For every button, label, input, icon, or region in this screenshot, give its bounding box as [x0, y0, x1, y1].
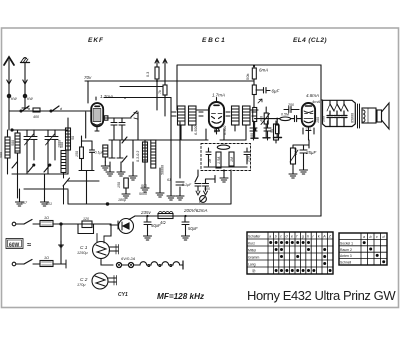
svg-text:1.5A: 1.5A: [217, 156, 221, 164]
svg-text:7k: 7k: [158, 90, 162, 94]
svg-text:500: 500: [141, 184, 147, 188]
svg-text:0.3-0.3: 0.3-0.3: [136, 151, 140, 162]
svg-text:250: 250: [293, 148, 298, 156]
svg-text:b: b: [370, 235, 372, 239]
svg-text:50k: 50k: [245, 74, 250, 80]
svg-text:4Ω: 4Ω: [160, 220, 166, 225]
svg-text:60W: 60W: [9, 243, 20, 249]
svg-text:100: 100: [316, 117, 320, 123]
svg-text:k: k: [318, 235, 320, 239]
svg-text:70v: 70v: [84, 75, 92, 80]
svg-text:a: a: [269, 235, 271, 239]
svg-text:Horny E432 Ultra Prinz GW: Horny E432 Ultra Prinz GW: [247, 288, 396, 303]
svg-text:EKF: EKF: [88, 37, 104, 44]
svg-text:50: 50: [71, 136, 75, 140]
svg-text:Raum 2: Raum 2: [340, 248, 352, 252]
svg-text:1Ω: 1Ω: [44, 216, 49, 220]
svg-text:A: A: [322, 235, 326, 239]
svg-text:6μF: 6μF: [272, 89, 280, 94]
svg-text:CY1: CY1: [118, 292, 128, 298]
svg-text:Lang: Lang: [248, 262, 256, 266]
svg-text:121: 121: [305, 128, 311, 132]
svg-text:007: 007: [21, 201, 28, 205]
svg-text:h: h: [307, 235, 309, 239]
svg-text:400: 400: [260, 116, 264, 122]
svg-text:KW: KW: [11, 97, 17, 101]
svg-text:6V/0.2A: 6V/0.2A: [121, 256, 136, 261]
svg-text:4mA: 4mA: [312, 99, 321, 104]
svg-text:a: a: [363, 235, 365, 239]
svg-text:1000: 1000: [57, 140, 61, 148]
svg-text:a: a: [124, 96, 126, 100]
svg-text:400: 400: [33, 115, 39, 119]
svg-text:Sockel 1: Sockel 1: [340, 241, 353, 245]
svg-text:≈: ≈: [27, 240, 31, 249]
svg-text:0.3: 0.3: [146, 72, 150, 77]
svg-text:e: e: [291, 235, 293, 239]
svg-text:200V/62mA: 200V/62mA: [183, 208, 208, 213]
svg-text:50: 50: [270, 129, 274, 133]
svg-text:a: a: [28, 107, 30, 111]
svg-text:150: 150: [117, 182, 121, 188]
svg-text:25μF: 25μF: [305, 150, 316, 155]
svg-text:5000: 5000: [139, 192, 147, 196]
svg-text:05800: 05800: [351, 113, 355, 123]
svg-text:6mA: 6mA: [259, 68, 268, 73]
svg-text:100: 100: [322, 116, 326, 122]
svg-text:d: d: [60, 107, 63, 111]
svg-text:Kurz: Kurz: [248, 241, 255, 245]
svg-text:235v: 235v: [140, 210, 152, 215]
svg-text:c: c: [376, 235, 378, 239]
svg-text:b: b: [275, 235, 277, 239]
svg-text:61: 61: [167, 178, 171, 182]
svg-text:50000: 50000: [161, 165, 165, 175]
svg-text:6-500: 6-500: [194, 126, 198, 135]
svg-text:KW: KW: [27, 97, 33, 101]
svg-text:Z: Z: [328, 235, 332, 239]
svg-text:EBC1: EBC1: [202, 37, 227, 44]
svg-text:4.8mA: 4.8mA: [306, 93, 319, 98]
svg-text:MF=128 kHz: MF=128 kHz: [157, 292, 205, 301]
svg-text:500: 500: [204, 187, 210, 191]
svg-text:f: f: [296, 235, 298, 239]
svg-text:1Ω: 1Ω: [44, 256, 49, 260]
svg-text:g: g: [302, 235, 304, 239]
svg-text:Mittel: Mittel: [248, 248, 256, 252]
svg-text:6-500: 6-500: [223, 126, 227, 135]
svg-text:1.7mA: 1.7mA: [100, 94, 113, 99]
svg-text:1.7mA: 1.7mA: [212, 93, 225, 98]
svg-text:1M: 1M: [230, 157, 234, 162]
svg-text:250: 250: [287, 103, 294, 107]
svg-text:100: 100: [250, 133, 254, 139]
svg-text:500: 500: [11, 140, 15, 146]
svg-text:Anten 3: Anten 3: [340, 254, 352, 258]
svg-text:℗: ℗: [252, 269, 256, 274]
svg-text:170μ: 170μ: [77, 283, 86, 287]
svg-text:Schalter: Schalter: [248, 234, 261, 238]
svg-text:c: c: [280, 235, 282, 239]
svg-text:180μ: 180μ: [118, 198, 126, 202]
svg-text:0.1μF: 0.1μF: [95, 151, 105, 155]
svg-text:0.5M: 0.5M: [281, 113, 289, 117]
svg-text:Gramm: Gramm: [248, 255, 259, 259]
svg-text:500: 500: [0, 152, 3, 158]
svg-text:120: 120: [83, 217, 89, 221]
svg-text:EL4 (CL2): EL4 (CL2): [293, 37, 327, 44]
svg-text:0.1μF: 0.1μF: [182, 183, 192, 187]
svg-text:d: d: [286, 235, 289, 239]
svg-text:250: 250: [247, 156, 251, 163]
svg-text:i: i: [313, 235, 314, 239]
svg-text:150: 150: [75, 151, 79, 157]
svg-text:50μF: 50μF: [188, 226, 198, 231]
svg-text:d: d: [383, 235, 386, 239]
svg-text:1250μ: 1250μ: [77, 251, 88, 255]
svg-text:001: 001: [46, 202, 52, 206]
svg-text:Schnell: Schnell: [340, 261, 351, 265]
svg-text:18: 18: [208, 159, 212, 163]
